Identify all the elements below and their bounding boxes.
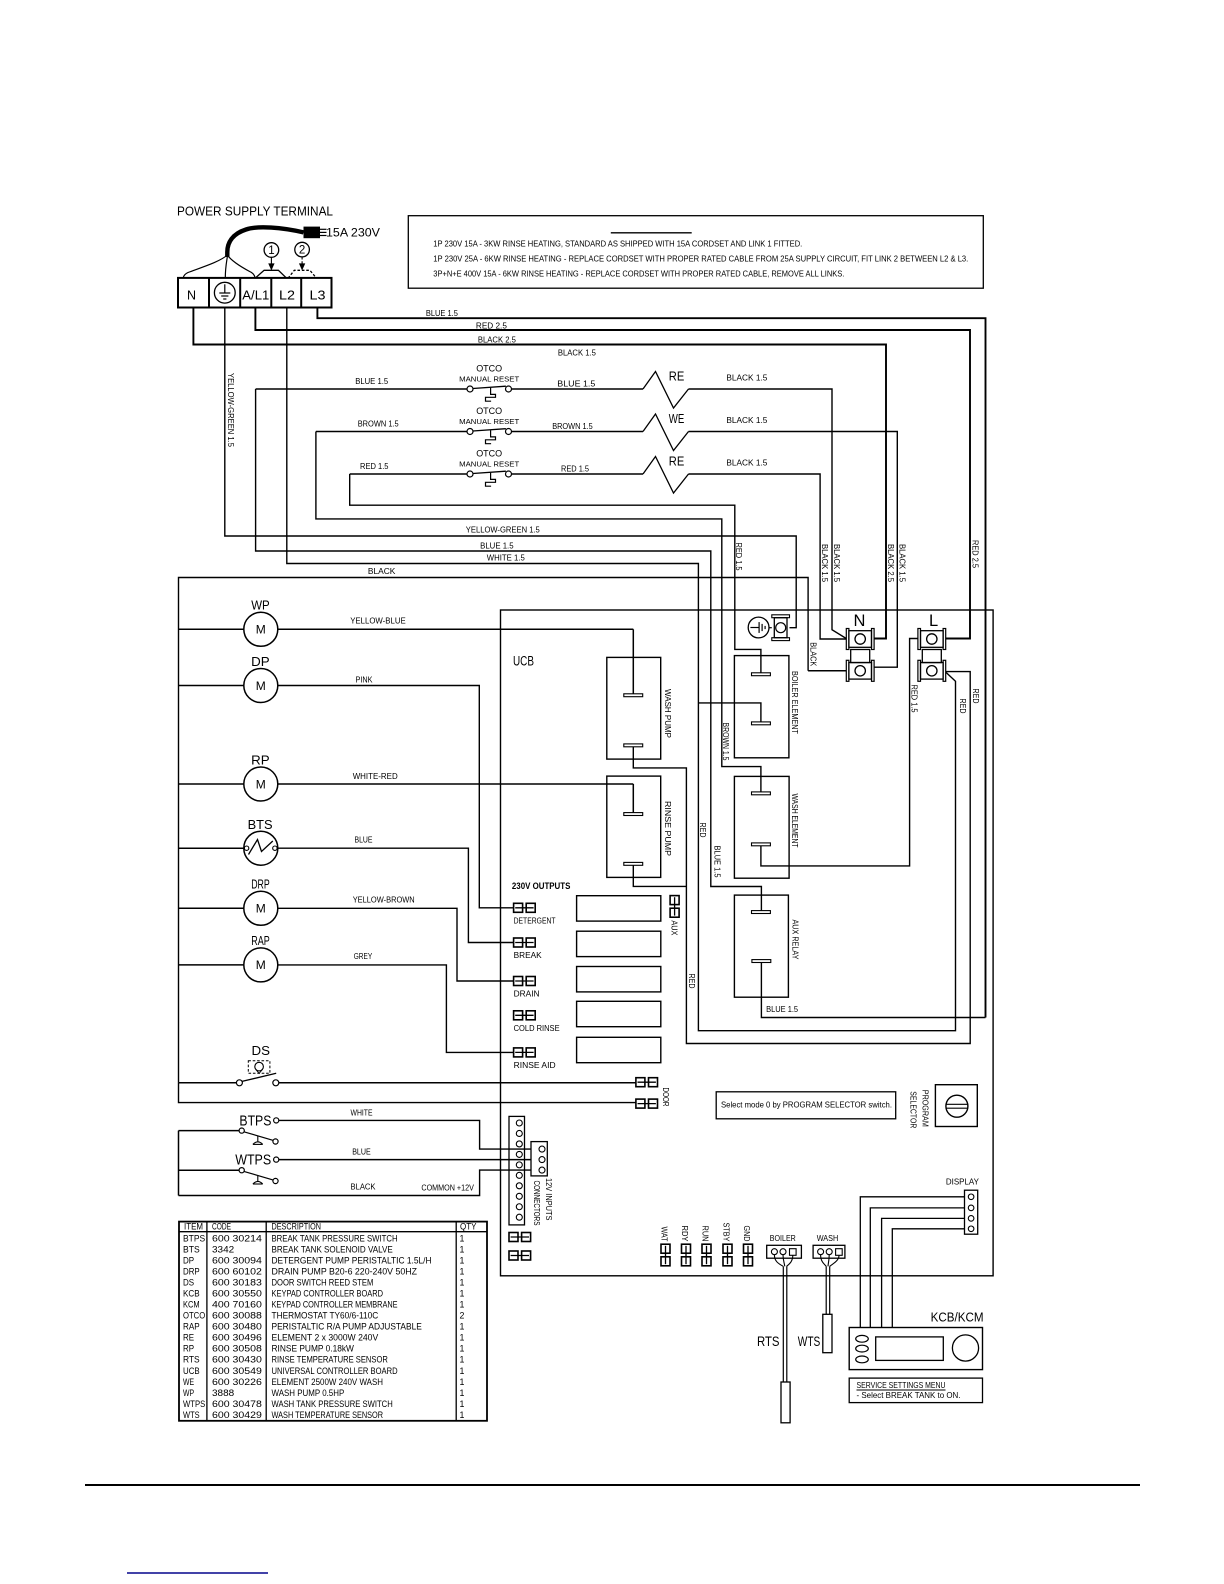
svg-text:600 30508: 600 30508 <box>212 1344 262 1354</box>
svg-text:BLUE 1.5: BLUE 1.5 <box>426 309 459 318</box>
svg-text:RTS: RTS <box>183 1355 200 1365</box>
svg-text:600 30480: 600 30480 <box>212 1322 262 1332</box>
svg-text:Select mode 0 by PROGRAM SELEC: Select mode 0 by PROGRAM SELECTOR switch… <box>721 1101 892 1110</box>
svg-text:PINK: PINK <box>356 676 374 685</box>
svg-text:ELEMENT 2 x 3000W 240V: ELEMENT 2 x 3000W 240V <box>272 1333 379 1343</box>
svg-text:1: 1 <box>460 1266 465 1276</box>
svg-text:1P 230V 15A - 3KW RINSE HEATIN: 1P 230V 15A - 3KW RINSE HEATING, STANDAR… <box>433 240 802 249</box>
svg-text:1: 1 <box>460 1255 465 1265</box>
svg-text:UCB: UCB <box>513 654 534 669</box>
svg-text:BLUE 1.5: BLUE 1.5 <box>480 541 514 550</box>
svg-text:400 70160: 400 70160 <box>212 1300 262 1310</box>
svg-text:DP: DP <box>251 654 270 669</box>
svg-text:1: 1 <box>460 1410 465 1420</box>
svg-text:RINSE TEMPERATURE SENSOR: RINSE TEMPERATURE SENSOR <box>272 1355 388 1365</box>
svg-text:1: 1 <box>460 1344 465 1354</box>
svg-text:WTS: WTS <box>798 1333 821 1349</box>
svg-text:DRP: DRP <box>183 1266 200 1276</box>
svg-text:- Select BREAK TANK to ON.: - Select BREAK TANK to ON. <box>857 1391 961 1400</box>
svg-text:YELLOW-BLUE: YELLOW-BLUE <box>350 617 406 626</box>
svg-text:1: 1 <box>460 1366 465 1376</box>
svg-text:MANUAL RESET: MANUAL RESET <box>459 375 520 384</box>
svg-text:KCB/KCM: KCB/KCM <box>931 1311 984 1325</box>
svg-text:SELECTOR: SELECTOR <box>909 1091 918 1128</box>
svg-text:1: 1 <box>460 1233 465 1243</box>
svg-text:DISPLAY: DISPLAY <box>946 1177 979 1187</box>
svg-text:230V OUTPUTS: 230V OUTPUTS <box>512 881 571 891</box>
svg-text:L3: L3 <box>310 288 326 302</box>
svg-text:BLACK 1.5: BLACK 1.5 <box>897 544 906 583</box>
svg-text:RINSE PUMP 0.18kW: RINSE PUMP 0.18kW <box>272 1344 355 1354</box>
svg-text:RED: RED <box>971 689 980 704</box>
svg-text:GND: GND <box>742 1226 751 1242</box>
svg-text:BTPS: BTPS <box>183 1233 205 1243</box>
svg-text:600 30094: 600 30094 <box>212 1255 262 1265</box>
svg-text:AUX: AUX <box>670 920 679 936</box>
svg-text:RE: RE <box>669 370 685 384</box>
svg-text:M: M <box>256 679 266 693</box>
svg-text:L: L <box>929 612 938 630</box>
svg-text:DRAIN: DRAIN <box>514 990 540 999</box>
svg-text:UNIVERSAL CONTROLLER BOARD: UNIVERSAL CONTROLLER BOARD <box>272 1366 398 1376</box>
svg-text:BOILER ELEMENT: BOILER ELEMENT <box>790 671 799 734</box>
svg-text:M: M <box>256 902 266 916</box>
svg-text:RUN: RUN <box>701 1226 710 1242</box>
svg-text:DOOR SWITCH REED STEM: DOOR SWITCH REED STEM <box>272 1278 374 1288</box>
svg-text:BLUE: BLUE <box>352 1147 371 1156</box>
svg-text:N: N <box>187 288 196 302</box>
svg-text:OTCO: OTCO <box>476 406 502 417</box>
svg-text:WTPS: WTPS <box>183 1399 205 1409</box>
svg-text:RED: RED <box>698 823 707 838</box>
svg-text:KCM: KCM <box>183 1300 200 1310</box>
svg-text:MANUAL RESET: MANUAL RESET <box>459 417 520 426</box>
svg-text:RE: RE <box>669 455 685 469</box>
svg-text:1: 1 <box>460 1244 465 1254</box>
svg-text:RED 1.5: RED 1.5 <box>360 462 389 471</box>
svg-text:M: M <box>256 958 266 972</box>
svg-text:WE: WE <box>183 1377 194 1387</box>
svg-text:600 60102: 600 60102 <box>212 1266 262 1276</box>
svg-text:3342: 3342 <box>212 1244 234 1254</box>
svg-text:YELLOW-BROWN: YELLOW-BROWN <box>353 896 415 905</box>
svg-text:15A 230V: 15A 230V <box>326 226 380 240</box>
svg-text:600 30430: 600 30430 <box>212 1355 262 1365</box>
svg-text:DRP: DRP <box>251 877 270 892</box>
svg-text:SERVICE SETTINGS MENU: SERVICE SETTINGS MENU <box>857 1381 946 1390</box>
svg-text:WP: WP <box>251 598 270 613</box>
svg-text:DS: DS <box>252 1043 271 1058</box>
svg-text:A/L1: A/L1 <box>242 288 269 302</box>
svg-text:L2: L2 <box>279 288 295 302</box>
svg-text:COMMON +12V: COMMON +12V <box>421 1183 474 1192</box>
svg-text:QTY: QTY <box>460 1222 477 1232</box>
svg-text:RED 1.5: RED 1.5 <box>734 543 743 572</box>
svg-text:1: 1 <box>268 245 274 257</box>
svg-text:DOOR: DOOR <box>661 1088 670 1107</box>
svg-text:WHITE: WHITE <box>351 1108 373 1117</box>
svg-text:DETERGENT: DETERGENT <box>514 917 556 926</box>
svg-text:M: M <box>256 623 266 637</box>
svg-text:POWER SUPPLY TERMINAL: POWER SUPPLY TERMINAL <box>177 204 333 219</box>
svg-text:RP: RP <box>183 1344 194 1354</box>
svg-text:BLACK 1.5: BLACK 1.5 <box>726 458 768 467</box>
svg-text:RDY: RDY <box>680 1226 689 1243</box>
svg-text:WP: WP <box>183 1388 194 1398</box>
svg-text:RED 1.5: RED 1.5 <box>561 464 590 473</box>
svg-text:BLUE 1.5: BLUE 1.5 <box>766 1005 799 1014</box>
svg-text:WHITE 1.5: WHITE 1.5 <box>487 554 526 563</box>
svg-text:600 30429: 600 30429 <box>212 1410 262 1420</box>
svg-text:BTPS: BTPS <box>239 1113 271 1129</box>
svg-text:RAP: RAP <box>183 1322 200 1332</box>
svg-text:WASH TEMPERATURE SENSOR: WASH TEMPERATURE SENSOR <box>272 1410 384 1420</box>
svg-text:DESCRIPTION: DESCRIPTION <box>272 1222 322 1232</box>
svg-text:1: 1 <box>460 1333 465 1343</box>
svg-text:600 30550: 600 30550 <box>212 1289 262 1299</box>
svg-text:1: 1 <box>460 1355 465 1365</box>
svg-text:RAP: RAP <box>251 933 270 948</box>
svg-text:RED 2.5: RED 2.5 <box>970 540 979 569</box>
svg-text:BLACK 1.5: BLACK 1.5 <box>558 348 597 357</box>
svg-text:RED 2.5: RED 2.5 <box>476 321 508 330</box>
svg-text:WASH TANK PRESSURE SWITCH: WASH TANK PRESSURE SWITCH <box>272 1399 393 1409</box>
svg-text:1: 1 <box>460 1377 465 1387</box>
svg-text:600 30214: 600 30214 <box>212 1233 262 1243</box>
svg-text:CODE: CODE <box>212 1222 231 1232</box>
svg-text:2: 2 <box>299 245 305 257</box>
svg-text:BLACK 1.5: BLACK 1.5 <box>820 544 829 583</box>
svg-text:UCB: UCB <box>183 1366 200 1376</box>
svg-text:BLUE 1.5: BLUE 1.5 <box>557 379 596 388</box>
svg-text:OTCO: OTCO <box>476 364 502 375</box>
svg-text:WASH: WASH <box>817 1234 839 1243</box>
svg-text:BLACK 2.5: BLACK 2.5 <box>886 544 895 583</box>
svg-text:BLACK: BLACK <box>808 642 817 667</box>
svg-text:1P 230V 25A - 6KW RINSE HEATI: 1P 230V 25A - 6KW RINSE HEATING - REPLAC… <box>433 255 968 264</box>
svg-text:BROWN 1.5: BROWN 1.5 <box>358 420 400 429</box>
svg-text:RED: RED <box>687 974 696 989</box>
svg-text:BREAK: BREAK <box>514 951 543 960</box>
svg-text:BREAK TANK PRESSURE SWITCH: BREAK TANK PRESSURE SWITCH <box>272 1233 398 1243</box>
svg-text:3P+N+E 400V 15A - 6KW RINSE HE: 3P+N+E 400V 15A - 6KW RINSE HEATING - RE… <box>433 270 844 279</box>
svg-text:WTPS: WTPS <box>235 1153 271 1169</box>
svg-text:CONNECTORS: CONNECTORS <box>532 1181 541 1226</box>
svg-text:1: 1 <box>460 1322 465 1332</box>
svg-text:DP: DP <box>183 1255 194 1265</box>
svg-text:N: N <box>854 612 866 630</box>
svg-text:THERMOSTAT TY60/6-110C: THERMOSTAT TY60/6-110C <box>272 1311 379 1321</box>
svg-text:WTS: WTS <box>183 1410 200 1420</box>
svg-text:DRAIN PUMP B20-6 220-240V 50HZ: DRAIN PUMP B20-6 220-240V 50HZ <box>272 1266 418 1276</box>
svg-text:600 30478: 600 30478 <box>212 1399 262 1409</box>
svg-text:KEYPAD CONTROLLER MEMBRANE: KEYPAD CONTROLLER MEMBRANE <box>272 1300 398 1310</box>
svg-text:BLACK 2.5: BLACK 2.5 <box>478 336 517 345</box>
svg-text:WHITE-RED: WHITE-RED <box>353 772 398 781</box>
svg-text:BLACK: BLACK <box>351 1183 377 1192</box>
svg-text:1: 1 <box>460 1388 465 1398</box>
svg-text:DETERGENT PUMP PERISTALTIC 1.5: DETERGENT PUMP PERISTALTIC 1.5L/H <box>272 1255 432 1265</box>
svg-text:BLACK 1.5: BLACK 1.5 <box>726 416 768 425</box>
svg-text:OTCO: OTCO <box>183 1311 205 1321</box>
svg-text:BLACK: BLACK <box>368 567 396 576</box>
svg-text:GREY: GREY <box>354 952 373 961</box>
svg-text:600 30549: 600 30549 <box>212 1366 262 1376</box>
svg-text:2: 2 <box>460 1311 465 1321</box>
svg-text:BLUE 1.5: BLUE 1.5 <box>355 377 389 386</box>
svg-text:1: 1 <box>460 1399 465 1409</box>
svg-text:RINSE AID: RINSE AID <box>514 1061 556 1070</box>
svg-text:1: 1 <box>460 1289 465 1299</box>
svg-text:YELLOW-GREEN 1.5: YELLOW-GREEN 1.5 <box>466 525 541 534</box>
svg-text:BLUE: BLUE <box>355 836 373 845</box>
svg-text:3888: 3888 <box>212 1388 234 1398</box>
svg-text:KEYPAD CONTROLLER BOARD: KEYPAD CONTROLLER BOARD <box>272 1289 384 1299</box>
svg-text:600 30183: 600 30183 <box>212 1278 262 1288</box>
svg-text:12V INPUTS: 12V INPUTS <box>544 1178 553 1221</box>
svg-text:BREAK TANK SOLENOID VALVE: BREAK TANK SOLENOID VALVE <box>272 1244 393 1254</box>
svg-text:DS: DS <box>183 1278 194 1288</box>
svg-text:RP: RP <box>251 752 270 767</box>
svg-text:KCB: KCB <box>183 1289 200 1299</box>
svg-text:WE: WE <box>669 412 685 426</box>
svg-text:WASH PUMP: WASH PUMP <box>663 689 673 738</box>
svg-text:RTS: RTS <box>757 1333 780 1349</box>
svg-text:BROWN 1.5: BROWN 1.5 <box>552 422 593 431</box>
svg-text:RE: RE <box>183 1333 194 1343</box>
svg-text:600 30088: 600 30088 <box>212 1311 262 1321</box>
svg-text:BLACK 1.5: BLACK 1.5 <box>726 373 768 382</box>
svg-text:PERISTALTIC R/A PUMP ADJUSTABL: PERISTALTIC R/A PUMP ADJUSTABLE <box>272 1322 422 1332</box>
svg-text:600 30496: 600 30496 <box>212 1333 262 1343</box>
svg-text:BTS: BTS <box>248 817 273 832</box>
svg-text:1: 1 <box>460 1300 465 1310</box>
svg-text:RED: RED <box>958 699 967 714</box>
svg-text:WASH PUMP 0.5HP: WASH PUMP 0.5HP <box>272 1388 345 1398</box>
svg-text:WASH ELEMENT: WASH ELEMENT <box>790 794 799 848</box>
svg-text:RINSE PUMP: RINSE PUMP <box>663 801 673 856</box>
svg-text:MANUAL RESET: MANUAL RESET <box>459 460 520 469</box>
svg-text:M: M <box>256 777 266 791</box>
svg-text:RED 1.5: RED 1.5 <box>910 685 919 714</box>
svg-text:BROWN 1.5: BROWN 1.5 <box>721 723 730 761</box>
svg-text:PROGRAM: PROGRAM <box>920 1090 929 1127</box>
svg-text:AUX RELAY: AUX RELAY <box>790 920 799 961</box>
svg-text:BLUE 1.5: BLUE 1.5 <box>713 846 722 879</box>
svg-text:ELEMENT 2500W 240V WASH: ELEMENT 2500W 240V WASH <box>272 1377 384 1387</box>
svg-text:WAT: WAT <box>660 1227 669 1242</box>
svg-text:600 30226: 600 30226 <box>212 1377 262 1387</box>
svg-text:COLD RINSE: COLD RINSE <box>514 1024 560 1033</box>
svg-text:1: 1 <box>460 1278 465 1288</box>
svg-text:YELLOW-GREEN 1.5: YELLOW-GREEN 1.5 <box>226 373 235 448</box>
svg-text:ITEM: ITEM <box>184 1222 203 1232</box>
svg-text:STBY: STBY <box>722 1223 731 1243</box>
svg-text:BTS: BTS <box>183 1244 200 1254</box>
svg-text:OTCO: OTCO <box>476 449 502 460</box>
svg-text:BLACK 1.5: BLACK 1.5 <box>832 544 841 583</box>
svg-text:BOILER: BOILER <box>770 1234 796 1243</box>
